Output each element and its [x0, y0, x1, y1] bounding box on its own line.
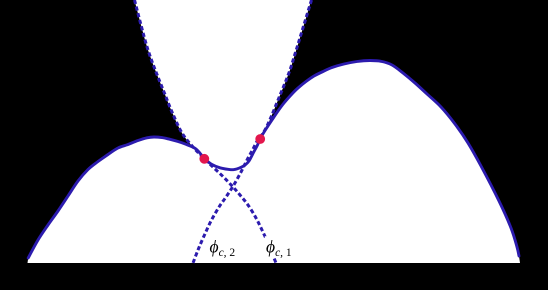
dashed parabola curve phi_c,2	[135, 0, 277, 263]
solid left hill curve	[28, 137, 204, 258]
label box phi_c,1	[265, 236, 291, 257]
red tangency dot left	[199, 154, 209, 164]
solid right hill curve	[260, 61, 519, 257]
label box phi_c,2	[209, 237, 237, 257]
solid bridge curve between tangency points	[204, 139, 260, 170]
dashed parabola curve phi_c,1	[193, 0, 312, 263]
red tangency dot right	[255, 134, 265, 144]
